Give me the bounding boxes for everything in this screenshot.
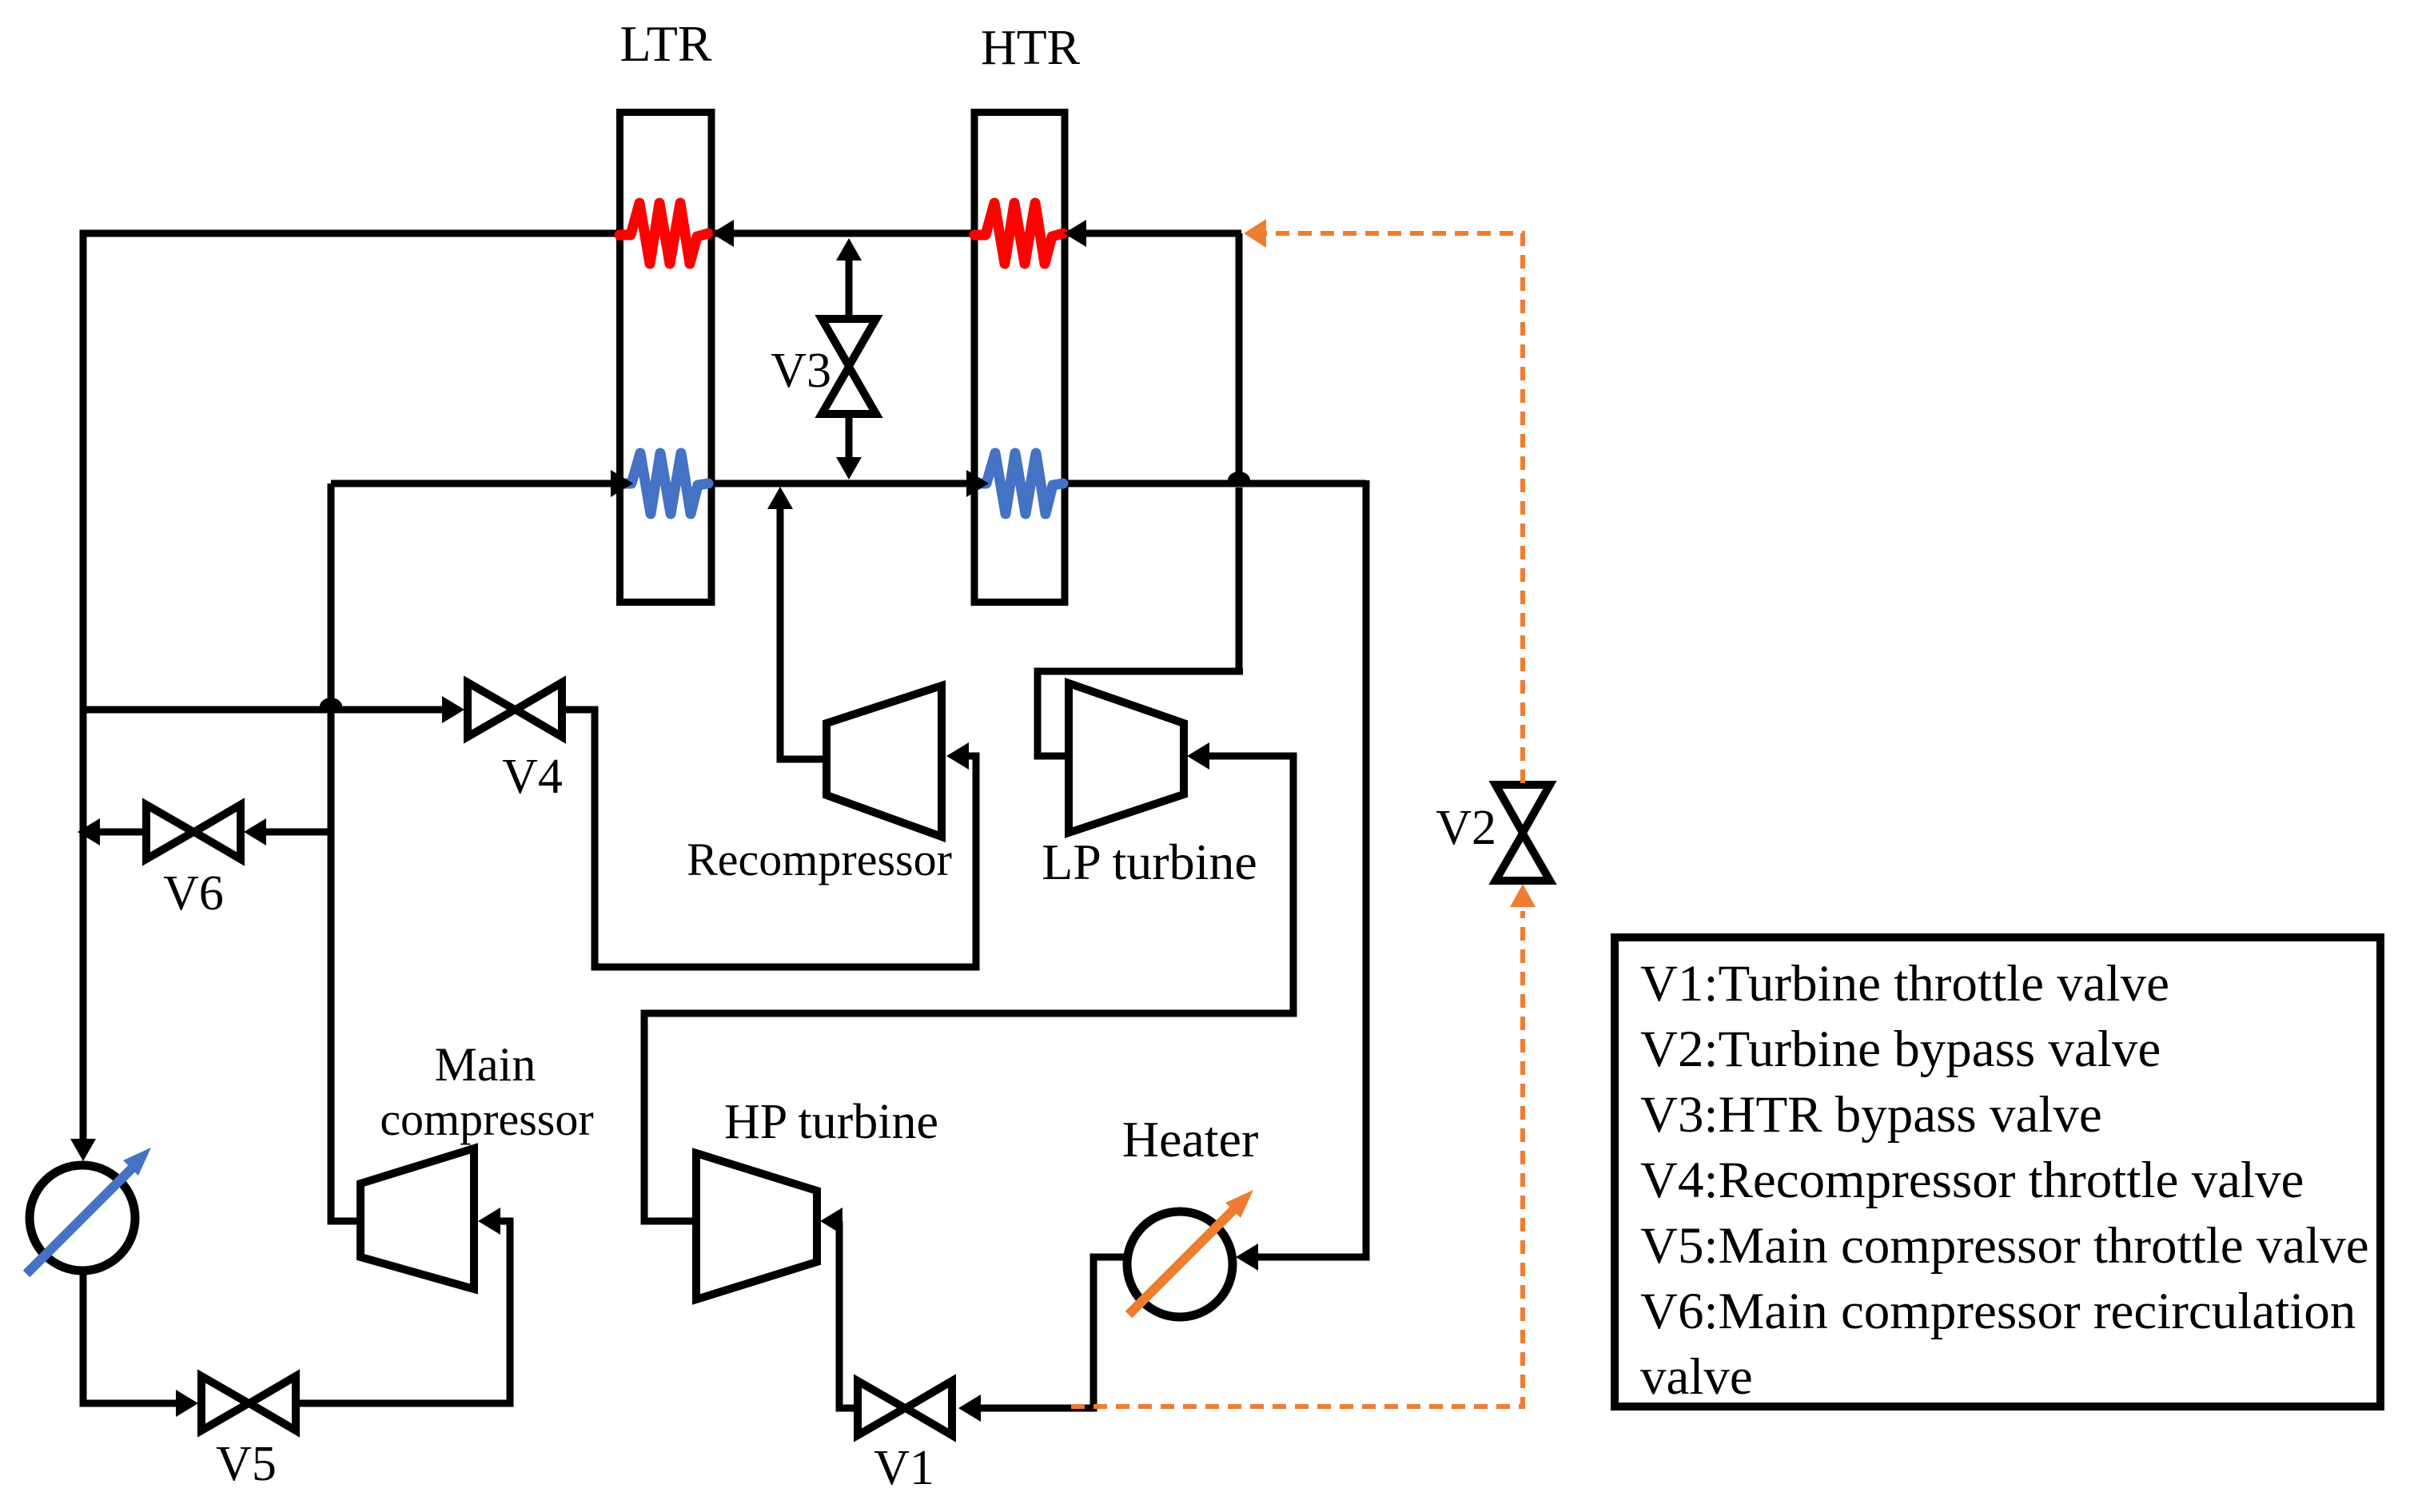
wire: recompressor split header (V4 line) [83, 706, 442, 714]
wire: cold header right segment to heater downcomer [1063, 480, 1366, 487]
arrow into HTR cold side [966, 470, 989, 497]
arrow into recompressor [946, 742, 969, 770]
bypass: orange dashed from V1 inlet to V2 [1071, 911, 1523, 1407]
arrow into V5 [176, 1390, 198, 1417]
arrow into heater [1236, 1243, 1258, 1271]
hop: LP exhaust riser over cold header [1228, 472, 1250, 480]
wire: V6 recirculation line [98, 829, 145, 836]
LTR cold coil (blue) [623, 453, 708, 514]
svg-text:valve: valve [1640, 1348, 1753, 1406]
cooler blue arrow [26, 1168, 133, 1274]
bypass: orange dashed from V2 top to hot header [1266, 233, 1523, 783]
wire: HP turbine exhaust to LP turbine inlet [644, 756, 1293, 1221]
wire: hot header right segment [1062, 230, 1241, 237]
legend box [1615, 937, 2380, 1407]
svg-text:HP turbine: HP turbine [724, 1095, 938, 1149]
wire: cooler to V5 [83, 1269, 177, 1403]
main compressor body [361, 1148, 474, 1289]
valve V1 bowtie [858, 1381, 952, 1435]
wire: V6 feed from compressor riser [265, 829, 331, 836]
wire: cold header left segment from compressor riser [331, 480, 614, 487]
svg-text:V4: V4 [502, 750, 563, 804]
arrow into V4 [442, 696, 464, 723]
svg-text:V2: V2 [1436, 801, 1496, 855]
arrow recompressor discharge into cold header [767, 487, 793, 509]
arrow into cooler [70, 1139, 96, 1161]
svg-text:V5:Main compressor throttle va: V5:Main compressor throttle valve [1640, 1217, 2369, 1275]
wire: main compressor discharge riser [331, 710, 361, 1221]
valve V3 riser bottom arrow [836, 457, 862, 479]
HTR cold coil (blue) [978, 453, 1063, 514]
svg-text:LTR: LTR [620, 15, 712, 72]
wire: V3 lower stem [846, 413, 853, 464]
heater circle [1127, 1212, 1233, 1317]
wire: LP turbine exhaust up to hot header [1038, 671, 1243, 756]
arrow into LTR cold side [611, 470, 633, 497]
wire: V5 to main compressor suction [296, 1221, 510, 1403]
valve V3 bowtie [822, 319, 876, 414]
svg-text:compressor: compressor [380, 1093, 593, 1145]
wire: hot header left segment and left downcomer [83, 233, 623, 1155]
arrow into V1 [958, 1395, 981, 1422]
arrow into HTR hot side [1064, 220, 1086, 247]
svg-text:V6:Main compressor recirculati: V6:Main compressor recirculation [1640, 1283, 2356, 1340]
arrow into LTR hot side [711, 220, 734, 247]
svg-text:V3:HTR bypass valve: V3:HTR bypass valve [1640, 1086, 2102, 1144]
LP turbine body [1069, 683, 1184, 833]
wire: hot header between LTR and HTR [710, 230, 987, 237]
valve V2 bowtie [1496, 785, 1550, 881]
wire: LP exhaust riser below cold header [1236, 487, 1243, 668]
heat exchanger LTR shell [620, 113, 712, 603]
svg-text:LP turbine: LP turbine [1042, 834, 1257, 890]
orange arrow into V2 [1510, 884, 1536, 907]
wire: recompressor discharge [780, 503, 827, 759]
wire: LP exhaust riser above cold header [1236, 233, 1243, 475]
LTR hot coil (red) [619, 203, 708, 264]
cooler circle [30, 1165, 135, 1271]
arrow into main compressor [478, 1208, 500, 1235]
svg-text:V1:Turbine throttle valve: V1:Turbine throttle valve [1640, 955, 2169, 1013]
arrow into LP turbine [1187, 742, 1209, 770]
valve V4 bowtie [468, 682, 562, 737]
svg-text:V6: V6 [163, 866, 224, 921]
arrow V6 into left downcomer [78, 818, 100, 846]
recompressor body [827, 686, 942, 837]
HP turbine body [696, 1153, 817, 1299]
svg-text:Heater: Heater [1122, 1111, 1259, 1168]
wire: V4 to recompressor suction [562, 710, 976, 967]
svg-text:V4:Recompressor throttle valve: V4:Recompressor throttle valve [1640, 1152, 2304, 1209]
valve V3 riser top arrow [836, 238, 862, 261]
wire: cold header between LTR and HTR [708, 480, 970, 487]
svg-text:Recompressor: Recompressor [687, 834, 952, 885]
wire: heater outlet to V1 [979, 1257, 1127, 1408]
wire: V3 upper stem [846, 254, 853, 320]
svg-text:V3: V3 [771, 344, 831, 398]
orange arrow into hot header end [1244, 219, 1266, 248]
heater orange arrow [1129, 1208, 1235, 1315]
svg-text:V5: V5 [216, 1437, 277, 1491]
hop: discharge riser over V4 line [320, 698, 342, 706]
arrow into V6 [244, 818, 266, 846]
wire: riser above hop to cold header corner [328, 483, 335, 702]
svg-text:V1: V1 [874, 1441, 934, 1495]
legend text [1640, 955, 2369, 1406]
heat exchanger HTR shell [974, 113, 1065, 603]
svg-text:V2:Turbine bypass valve: V2:Turbine bypass valve [1640, 1021, 2161, 1078]
arrow into HP turbine [820, 1208, 843, 1235]
HTR hot coil (red) [974, 203, 1063, 264]
valve V6 bowtie [146, 805, 241, 859]
svg-text:Main: Main [435, 1038, 536, 1091]
valve V5 bowtie [201, 1376, 296, 1430]
wire: heater feed downcomer [1255, 480, 1366, 1257]
svg-text:HTR: HTR [981, 21, 1081, 75]
wire: V1 to HP turbine inlet [839, 1221, 858, 1408]
